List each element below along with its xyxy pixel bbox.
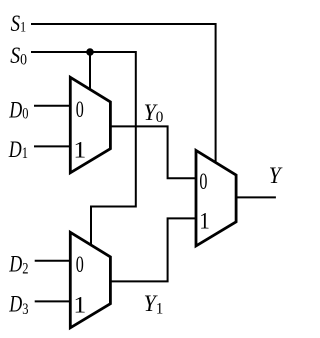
wire S0 (horizontal, down, left, down to U2 select) xyxy=(31,52,136,246)
wire Y1 (U2 output right, up, right to U3 input 1) xyxy=(110,218,196,281)
svg-text:1: 1 xyxy=(73,138,86,163)
svg-text:0: 0 xyxy=(199,169,207,194)
mux U1 xyxy=(70,77,110,173)
wire D0 xyxy=(34,105,70,107)
wire D2 xyxy=(35,260,70,262)
svg-text:0: 0 xyxy=(76,253,84,278)
wire Y0 (U1 output right, down, right to U3 input 0) xyxy=(110,126,196,178)
wire D1 xyxy=(34,145,70,147)
wire Y (U3 output) xyxy=(236,196,276,198)
mux U2 xyxy=(70,232,110,327)
svg-text:1: 1 xyxy=(199,207,210,233)
wire D3 xyxy=(35,300,70,302)
svg-text:1: 1 xyxy=(73,293,86,318)
mux U3 xyxy=(196,150,236,246)
junction dot on S0 xyxy=(86,48,94,56)
svg-text:0: 0 xyxy=(76,98,84,123)
wire S1 (horizontal run then down to U3 select) xyxy=(31,24,216,162)
wire S0 branch to U1 select xyxy=(89,51,91,91)
